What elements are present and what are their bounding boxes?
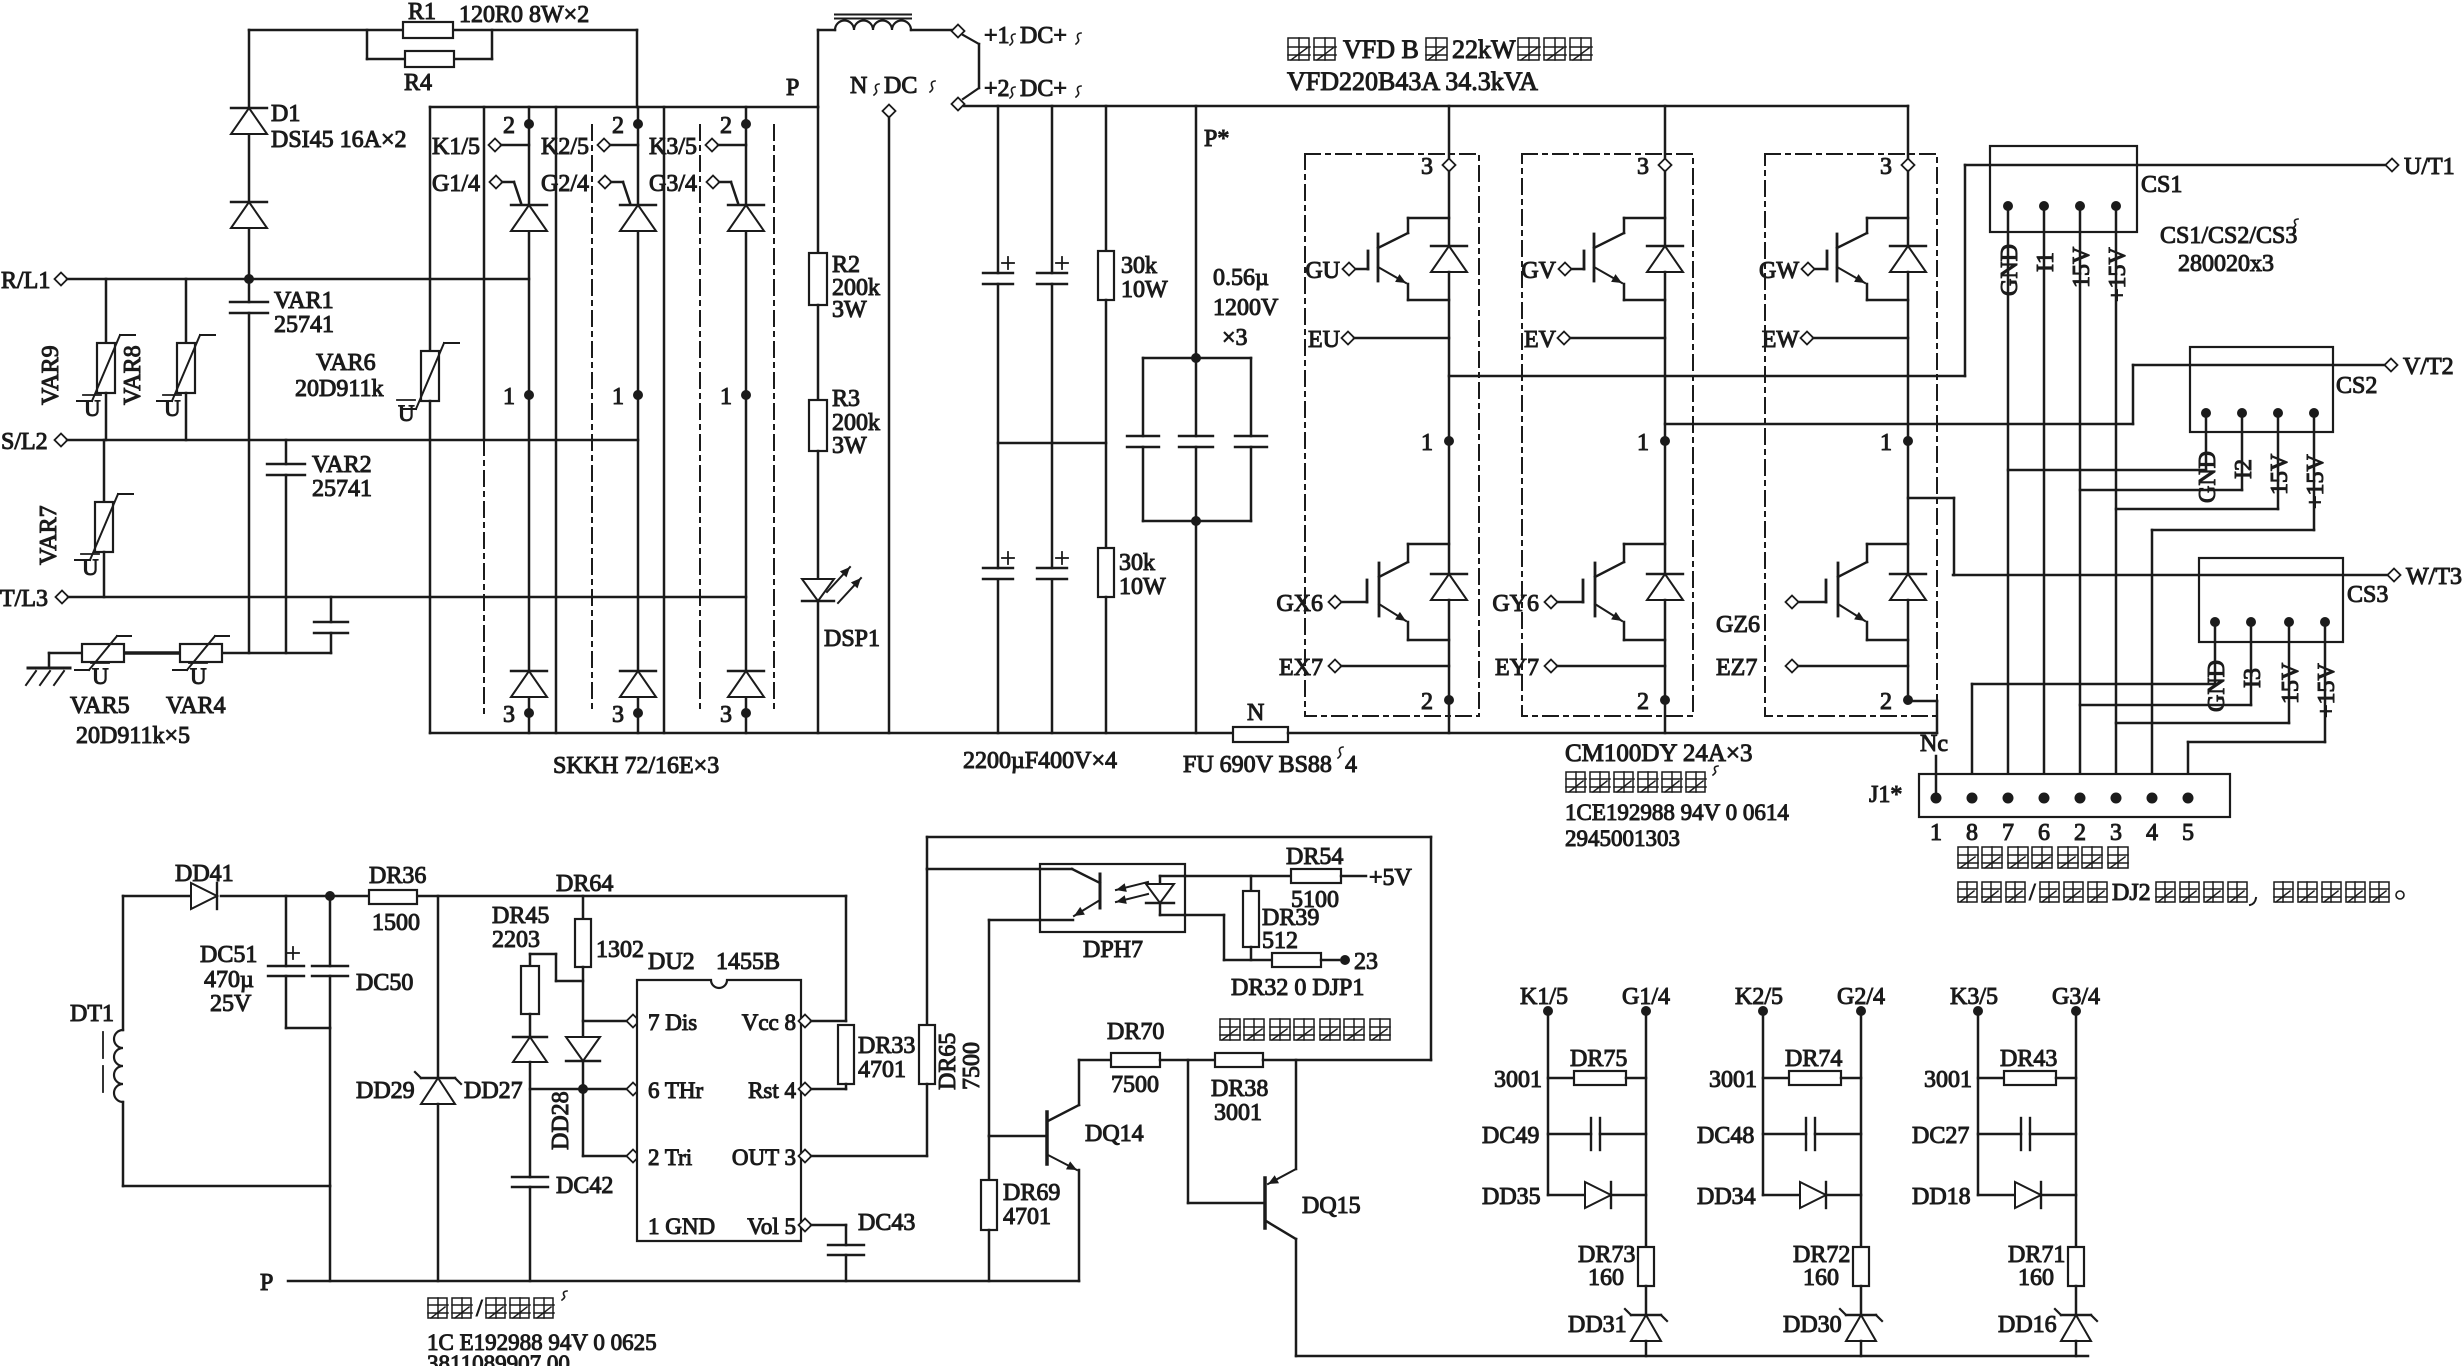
svg-text:DR45: DR45 bbox=[492, 903, 549, 929]
terminal +1 DC+ bbox=[952, 25, 965, 38]
varistor VAR7 bbox=[103, 440, 106, 502]
wire OUT3 bbox=[799, 1150, 812, 1163]
svg-text:DC50: DC50 bbox=[356, 970, 413, 996]
capacitor VAR1 25741 bbox=[248, 279, 251, 302]
node 2 terminal phase 2 bbox=[1660, 695, 1670, 705]
svg-text:2: 2 bbox=[720, 113, 732, 139]
svg-text:25741: 25741 bbox=[312, 476, 372, 502]
zener DD29 bbox=[437, 896, 440, 1078]
svg-text:1500: 1500 bbox=[372, 910, 420, 936]
svg-text:DD28: DD28 bbox=[548, 1091, 574, 1150]
varistor VAR8 bbox=[185, 279, 188, 343]
wire P riser bbox=[817, 30, 820, 107]
svg-text:1: 1 bbox=[1421, 430, 1433, 456]
wire V output bbox=[1665, 423, 2133, 426]
svg-text:CS1/CS2/CS3: CS1/CS2/CS3 bbox=[2160, 223, 2297, 249]
zener DD16 bbox=[2075, 1286, 2078, 1315]
svg-text:25V: 25V bbox=[210, 991, 252, 1017]
svg-text:DR54: DR54 bbox=[1286, 844, 1343, 870]
terminal EY7 bbox=[1545, 660, 1558, 673]
svg-text:1: 1 bbox=[1930, 820, 1942, 846]
svg-text:+2: +2 bbox=[984, 76, 1010, 102]
svg-text:20D911k×5: 20D911k×5 bbox=[76, 723, 190, 749]
label connector note bbox=[1958, 882, 1977, 902]
wire CS2 15V jog bbox=[2277, 413, 2280, 509]
wire opto anode to +5V bbox=[1185, 875, 1291, 878]
node 1 terminal 3 bbox=[741, 390, 751, 400]
led DSP1 bbox=[817, 451, 820, 579]
svg-text:VAR6: VAR6 bbox=[316, 350, 376, 376]
svg-text:+5V: +5V bbox=[1369, 865, 1413, 891]
capacitor bank column 1 bbox=[997, 106, 1000, 273]
svg-text:30k: 30k bbox=[1119, 550, 1155, 576]
wire R1 top bbox=[249, 29, 637, 32]
wire N riser bbox=[888, 117, 891, 733]
svg-text:GND: GND bbox=[1997, 244, 2023, 296]
svg-text:DR33: DR33 bbox=[858, 1033, 915, 1059]
svg-text:I2: I2 bbox=[2231, 459, 2257, 479]
svg-text:S/L2: S/L2 bbox=[1, 429, 48, 455]
resistor DR71 160 bbox=[2068, 1247, 2084, 1286]
svg-text:1302: 1302 bbox=[596, 937, 644, 963]
svg-text:1: 1 bbox=[1880, 430, 1892, 456]
svg-text:2: 2 bbox=[612, 113, 624, 139]
wire bridge column b bbox=[555, 107, 558, 733]
connector J1* bbox=[1919, 774, 2230, 817]
svg-text:R3: R3 bbox=[832, 386, 860, 412]
svg-text:G3/4: G3/4 bbox=[649, 171, 697, 197]
resistor R1 bbox=[403, 22, 453, 38]
svg-text:3: 3 bbox=[503, 702, 515, 728]
wire Rst4 bbox=[799, 1083, 812, 1096]
wire signal loop top bbox=[926, 837, 929, 869]
ground bbox=[48, 653, 51, 668]
capacitor DC49 bbox=[1548, 1133, 1591, 1136]
terminal K3/5 bbox=[706, 139, 719, 152]
wire K2/5 column bbox=[1762, 1011, 1765, 1195]
title line 1 bbox=[1288, 38, 1310, 60]
svg-text:DR43: DR43 bbox=[2000, 1046, 2057, 1072]
svg-text:1200V: 1200V bbox=[1213, 295, 1279, 321]
svg-text:23: 23 bbox=[1354, 949, 1378, 975]
svg-text:3001: 3001 bbox=[1214, 1100, 1262, 1126]
diode freewheel lower phase 2 bbox=[1647, 573, 1683, 575]
wire CS3 15V jog bbox=[2288, 622, 2291, 723]
igbt GZ6 lower bbox=[1907, 441, 1910, 574]
sensor CS2 bbox=[2190, 347, 2333, 432]
zener DD31 bbox=[1645, 1286, 1648, 1315]
svg-text:DSP1: DSP1 bbox=[824, 626, 880, 652]
svg-text:2200µF400V×4: 2200µF400V×4 bbox=[963, 748, 1117, 774]
capacitor VAR2 25741 bbox=[285, 440, 288, 464]
svg-text:GY6: GY6 bbox=[1492, 591, 1539, 617]
svg-text:4: 4 bbox=[2146, 820, 2158, 846]
svg-text:1455B: 1455B bbox=[716, 949, 780, 975]
svg-text:2 Tri: 2 Tri bbox=[648, 1145, 692, 1170]
svg-text:U/T1: U/T1 bbox=[2404, 154, 2455, 180]
wire CS3 I3 jog bbox=[2250, 622, 2253, 705]
svg-text:1: 1 bbox=[503, 384, 515, 410]
igbt GV upper bbox=[1664, 171, 1667, 246]
svg-text:3: 3 bbox=[1421, 154, 1433, 180]
wire CS3 +15V jog bbox=[2324, 622, 2327, 742]
svg-text:DU2: DU2 bbox=[648, 949, 695, 975]
svg-text:DC43: DC43 bbox=[858, 1210, 915, 1236]
thyristor 1 upper bbox=[511, 204, 547, 206]
diode freewheel upper phase 3 bbox=[1890, 245, 1926, 247]
node 3 terminal phase 1 bbox=[1448, 106, 1451, 159]
node 3 terminal phase 3 bbox=[1907, 106, 1910, 159]
node THr junction bbox=[578, 1084, 588, 1094]
svg-text:GV: GV bbox=[1521, 258, 1556, 284]
thyristor 2 upper bbox=[620, 204, 656, 206]
module outline phase 2 bbox=[1522, 154, 1693, 716]
resistor R2 200k 3W bbox=[817, 107, 820, 253]
svg-text:VFD B: VFD B bbox=[1343, 35, 1419, 64]
wire CS1 +15V to J1 pin3 bbox=[2115, 206, 2118, 791]
svg-text:G2/4: G2/4 bbox=[541, 171, 589, 197]
svg-text:3: 3 bbox=[720, 702, 732, 728]
svg-text:DC42: DC42 bbox=[556, 1173, 613, 1199]
svg-text:K1/5: K1/5 bbox=[432, 134, 480, 160]
svg-text:4701: 4701 bbox=[858, 1057, 906, 1083]
svg-text:FU 690V BS88: FU 690V BS88 bbox=[1183, 752, 1332, 778]
terminal EU bbox=[1342, 332, 1355, 345]
svg-text:7500: 7500 bbox=[959, 1042, 985, 1090]
resistor DR74 3001 bbox=[1763, 1077, 1789, 1080]
svg-text:DR70: DR70 bbox=[1107, 1019, 1164, 1045]
svg-text:DC48: DC48 bbox=[1697, 1123, 1754, 1149]
wire T/L3 bbox=[68, 596, 746, 599]
svg-text:470µ: 470µ bbox=[204, 967, 254, 993]
svg-text:DJ2: DJ2 bbox=[2112, 880, 2151, 906]
svg-text:EW: EW bbox=[1762, 327, 1800, 353]
module outline phase 1 bbox=[1305, 154, 1479, 716]
wire CS3 GND jog bbox=[2214, 622, 2217, 684]
svg-text:7500: 7500 bbox=[1111, 1072, 1159, 1098]
svg-text:512: 512 bbox=[1262, 928, 1298, 954]
svg-text:1: 1 bbox=[720, 384, 732, 410]
svg-text:4701: 4701 bbox=[1003, 1204, 1051, 1230]
wire CS2 +15V jog bbox=[2313, 413, 2316, 530]
wire CS1 GND to J1 pin7 bbox=[2007, 206, 2010, 791]
diode D1b bbox=[231, 201, 267, 203]
svg-text:EU: EU bbox=[1308, 327, 1340, 353]
wire signal loop right bbox=[1430, 837, 1433, 1060]
wire bridge top bus P bbox=[430, 106, 818, 109]
wire CS1 15V to J1 pin2 bbox=[2079, 206, 2082, 791]
terminal EX7 bbox=[1329, 660, 1342, 673]
svg-text:N: N bbox=[1247, 700, 1264, 726]
wire R1 right drop bbox=[636, 30, 639, 107]
resistor 30k 10W lower bbox=[1098, 548, 1114, 597]
wire module boundary 2 bbox=[699, 125, 701, 713]
svg-text:K2/5: K2/5 bbox=[1735, 984, 1783, 1010]
svg-text:DD35: DD35 bbox=[1482, 1184, 1541, 1210]
svg-text:280020x3: 280020x3 bbox=[2178, 251, 2274, 277]
wire G1/4 column bbox=[1645, 1011, 1648, 1247]
svg-text:DC49: DC49 bbox=[1482, 1123, 1539, 1149]
node 3 terminal 1 bbox=[524, 708, 534, 718]
diode DD35 bbox=[1548, 1194, 1585, 1197]
svg-text:DQ15: DQ15 bbox=[1302, 1193, 1361, 1219]
svg-text:2: 2 bbox=[1880, 689, 1892, 715]
resistor R4 bbox=[366, 30, 369, 59]
svg-text:U: U bbox=[164, 396, 181, 421]
svg-text:CS3: CS3 bbox=[2347, 582, 2388, 608]
svg-text:1: 1 bbox=[612, 384, 624, 410]
svg-text:2: 2 bbox=[503, 113, 515, 139]
svg-text:P: P bbox=[260, 1270, 273, 1296]
svg-text:3W: 3W bbox=[832, 297, 867, 323]
svg-text:OUT 3: OUT 3 bbox=[732, 1145, 796, 1170]
wire pin7 Dis bbox=[583, 1020, 631, 1023]
node 3 terminal 2 bbox=[633, 708, 643, 718]
node 2 terminal phase 3 bbox=[1903, 695, 1913, 705]
node R/L1 junction bbox=[244, 274, 254, 284]
svg-text:GND: GND bbox=[2195, 451, 2221, 503]
svg-text:DC27: DC27 bbox=[1912, 1123, 1969, 1149]
wire U output bbox=[1449, 375, 1965, 378]
svg-text:GX6: GX6 bbox=[1276, 591, 1323, 617]
svg-text:VAR4: VAR4 bbox=[166, 693, 226, 719]
wire W output bbox=[1908, 497, 1954, 500]
svg-text:10W: 10W bbox=[1121, 277, 1168, 303]
svg-text:R4: R4 bbox=[404, 70, 432, 96]
svg-text:EX7: EX7 bbox=[1279, 655, 1323, 681]
resistor R3 200k 3W bbox=[817, 305, 820, 400]
wire main DC bus bbox=[964, 105, 1908, 108]
wire R/L1 bbox=[67, 278, 529, 281]
svg-text:T/L3: T/L3 bbox=[0, 586, 48, 612]
wire D1 branch bbox=[248, 30, 251, 108]
label accessory board bbox=[1566, 772, 1586, 792]
terminal K2/5 bbox=[598, 139, 611, 152]
svg-text:2945001303: 2945001303 bbox=[1565, 826, 1680, 851]
svg-text:DT1: DT1 bbox=[70, 1001, 114, 1027]
svg-text:SKKH 72/16E×3: SKKH 72/16E×3 bbox=[553, 753, 719, 779]
terminal EZ7 bbox=[1786, 660, 1799, 673]
svg-text:1CE192988 94V 0 0614: 1CE192988 94V 0 0614 bbox=[1565, 800, 1789, 825]
svg-text:3811089907 00: 3811089907 00 bbox=[427, 1351, 570, 1366]
capacitor DC42 bbox=[512, 1176, 548, 1178]
diode D1 bbox=[231, 107, 267, 109]
terminal +2 DC+ bbox=[952, 98, 965, 111]
diode DD41 bbox=[191, 883, 217, 909]
node 1 terminal phase 1 bbox=[1444, 436, 1454, 446]
node 1 terminal 2 bbox=[633, 390, 643, 400]
svg-text:DC51: DC51 bbox=[200, 942, 257, 968]
svg-text:2: 2 bbox=[1637, 689, 1649, 715]
svg-text:U: U bbox=[84, 396, 101, 421]
svg-text:VAR1: VAR1 bbox=[274, 288, 334, 314]
svg-text:CS2: CS2 bbox=[2336, 373, 2377, 399]
svg-text:K2/5: K2/5 bbox=[541, 134, 589, 160]
svg-text:6 THr: 6 THr bbox=[648, 1078, 703, 1103]
svg-text:DR69: DR69 bbox=[1003, 1180, 1060, 1206]
capacitor T/L3 ground cap bbox=[330, 597, 333, 622]
wire Vcc8 bbox=[799, 1015, 812, 1028]
igbt GU upper bbox=[1448, 171, 1451, 246]
resistor DR64 1302 bbox=[582, 896, 585, 919]
node 2 terminal 3 bbox=[741, 119, 751, 129]
varistor VAR6 20D911k bbox=[429, 107, 432, 351]
resistor DR75 3001 bbox=[1548, 1077, 1574, 1080]
resistor DR54 5100 bbox=[1291, 869, 1341, 883]
svg-text:3: 3 bbox=[2110, 820, 2122, 846]
terminal 23 DJP1 bbox=[1340, 955, 1350, 965]
svg-text:K3/5: K3/5 bbox=[649, 134, 697, 160]
svg-text:DD34: DD34 bbox=[1697, 1184, 1756, 1210]
resistor DR73 160 bbox=[1638, 1247, 1654, 1286]
resistor DR65 7500 bbox=[926, 869, 929, 1025]
resistor DR70 7500 bbox=[1111, 1053, 1160, 1067]
svg-text:G1/4: G1/4 bbox=[432, 171, 480, 197]
inductor DC choke bbox=[818, 29, 835, 32]
wire N bus right bbox=[1288, 732, 1937, 735]
diode DD18 bbox=[1978, 1194, 2015, 1197]
svg-text:120R0 8W×2: 120R0 8W×2 bbox=[459, 2, 589, 28]
zener DD30 bbox=[1860, 1286, 1863, 1315]
resistor DR32 0 bbox=[1272, 953, 1321, 967]
svg-text:DQ14: DQ14 bbox=[1085, 1121, 1144, 1147]
terminal W/T3 bbox=[2388, 569, 2401, 582]
label current sensor connector bbox=[1958, 847, 1978, 868]
terminal G2/4 bbox=[599, 176, 612, 189]
wire gate drive rail bbox=[1296, 1355, 2088, 1358]
svg-text:W/T3: W/T3 bbox=[2406, 564, 2462, 590]
terminal K1/5 bbox=[489, 139, 502, 152]
svg-text:U: U bbox=[92, 664, 109, 689]
svg-text:2: 2 bbox=[2074, 820, 2086, 846]
svg-text:CS1: CS1 bbox=[2141, 172, 2182, 198]
terminal U/T1 bbox=[2386, 159, 2399, 172]
wire W/T3 bbox=[1953, 574, 2388, 577]
svg-text:+1: +1 bbox=[984, 23, 1010, 49]
svg-text:3001: 3001 bbox=[1924, 1067, 1972, 1093]
wire bridge column a bbox=[483, 107, 486, 440]
svg-text:3: 3 bbox=[1880, 154, 1892, 180]
node DD41 junction bbox=[325, 891, 335, 901]
svg-text:U: U bbox=[82, 555, 99, 580]
svg-text:P: P bbox=[786, 75, 799, 101]
label thyristor gate signal bbox=[1220, 1019, 1240, 1040]
svg-text:P*: P* bbox=[1204, 126, 1229, 152]
wire bridge column a lower bbox=[483, 440, 485, 713]
svg-text:R/L1: R/L1 bbox=[1, 268, 50, 294]
svg-text:Nc: Nc bbox=[1920, 731, 1948, 757]
svg-text:GU: GU bbox=[1305, 258, 1340, 284]
capacitor bank column 2 bbox=[1051, 106, 1054, 273]
svg-text:GZ6: GZ6 bbox=[1716, 612, 1760, 638]
node 1 terminal 1 bbox=[524, 390, 534, 400]
svg-text:15V: 15V bbox=[2267, 453, 2293, 495]
pins CS1 bbox=[2003, 201, 2013, 211]
svg-text:3: 3 bbox=[612, 702, 624, 728]
svg-text:2: 2 bbox=[1421, 689, 1433, 715]
optocoupler DPH7 bbox=[1040, 864, 1185, 932]
svg-text:I1: I1 bbox=[2033, 252, 2059, 272]
node 1 terminal phase 2 bbox=[1660, 436, 1670, 446]
diode freewheel lower phase 1 bbox=[1431, 573, 1467, 575]
svg-text:30k: 30k bbox=[1121, 253, 1157, 279]
svg-text:DC: DC bbox=[884, 73, 917, 99]
svg-text:6: 6 bbox=[2038, 820, 2050, 846]
svg-text:15V: 15V bbox=[2069, 246, 2095, 288]
svg-text:10W: 10W bbox=[1119, 574, 1166, 600]
fuse FU 690V BS88 4 bbox=[1233, 727, 1288, 742]
svg-text:+15V: +15V bbox=[2314, 662, 2340, 718]
svg-text:8: 8 bbox=[1966, 820, 1978, 846]
capacitor snubber block 0.56u x3 bbox=[1143, 357, 1251, 360]
wire G2/4 column bbox=[1860, 1011, 1863, 1247]
svg-text:160: 160 bbox=[1803, 1265, 1839, 1291]
ic DU2 1455B bbox=[637, 980, 801, 1241]
svg-text:D1: D1 bbox=[271, 101, 300, 127]
wire N bus bbox=[430, 732, 1233, 735]
capacitor DC43 bbox=[845, 1225, 848, 1245]
svg-text:DC+: DC+ bbox=[1020, 76, 1067, 102]
diode freewheel lower phase 3 bbox=[1890, 573, 1926, 575]
svg-text:3001: 3001 bbox=[1709, 1067, 1757, 1093]
svg-text:/: / bbox=[476, 1296, 483, 1322]
svg-text:1: 1 bbox=[1637, 430, 1649, 456]
svg-text:DC+: DC+ bbox=[1020, 23, 1067, 49]
pins J1 bbox=[1931, 793, 1942, 804]
transistor DQ15 bbox=[1187, 1060, 1190, 1203]
diode DD34 bbox=[1763, 1194, 1800, 1197]
diode DD28 bbox=[566, 1037, 600, 1061]
svg-text:EZ7: EZ7 bbox=[1716, 655, 1757, 681]
svg-text:25741: 25741 bbox=[274, 312, 334, 338]
svg-text:N: N bbox=[850, 73, 867, 99]
svg-text:DR75: DR75 bbox=[1570, 1046, 1627, 1072]
wire P* branch bbox=[1195, 106, 1198, 358]
wire DC51-DC50 bottom bbox=[286, 1027, 330, 1030]
svg-text:V/T2: V/T2 bbox=[2403, 354, 2454, 380]
svg-text:DSI45 16A×2: DSI45 16A×2 bbox=[271, 127, 407, 153]
resistor DR39 512 bbox=[1250, 876, 1253, 891]
svg-text:U: U bbox=[398, 401, 415, 426]
wire K1/5 column bbox=[1547, 1011, 1550, 1195]
sensor CS3 bbox=[2199, 558, 2343, 642]
capacitor DC51 470u 25V bbox=[285, 896, 288, 966]
varistor VAR4 bbox=[180, 644, 222, 662]
resistor DR33 4701 bbox=[838, 1025, 854, 1084]
sensor CS1 bbox=[1990, 146, 2137, 232]
node 2 terminal 2 bbox=[633, 119, 643, 129]
svg-text:I3: I3 bbox=[2240, 668, 2266, 688]
svg-text:3001: 3001 bbox=[1494, 1067, 1542, 1093]
node snubber top bbox=[1191, 353, 1201, 363]
svg-text:15V: 15V bbox=[2278, 662, 2304, 704]
svg-text:DR38: DR38 bbox=[1211, 1076, 1268, 1102]
transformer DT1 bbox=[122, 896, 125, 1030]
svg-text:0.56µ: 0.56µ bbox=[1213, 265, 1269, 291]
svg-text:DD30: DD30 bbox=[1783, 1312, 1842, 1338]
svg-text:DD31: DD31 bbox=[1568, 1312, 1627, 1338]
module outline phase 3 bbox=[1765, 154, 1937, 716]
svg-text:VAR2: VAR2 bbox=[312, 452, 372, 478]
wire CS2 I2 jog bbox=[2241, 413, 2244, 490]
capacitor DC50 bbox=[329, 896, 332, 966]
label driver board bbox=[428, 1298, 448, 1318]
svg-text:R1: R1 bbox=[408, 0, 436, 25]
capacitor DC27 bbox=[1978, 1133, 2021, 1136]
wire pin2 Tri bbox=[583, 1155, 631, 1158]
svg-text:VFD220B43A 34.3kVA: VFD220B43A 34.3kVA bbox=[1287, 67, 1538, 96]
wire CS1 I1 to J1 pin6 bbox=[2043, 206, 2046, 791]
